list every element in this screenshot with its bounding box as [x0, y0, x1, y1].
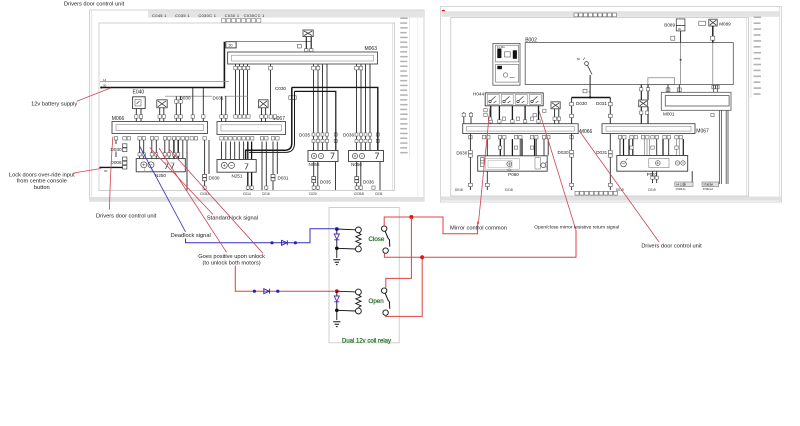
- lock motor assembly N251: [217, 160, 256, 173]
- svg-text:Dual 12v coil relay: Dual 12v coil relay: [342, 339, 391, 345]
- fuse box B001: [493, 43, 520, 85]
- svg-text:P060: P060: [508, 172, 519, 177]
- mid pin boxes: [498, 146, 533, 149]
- wire: [647, 107, 649, 124]
- wire: [337, 228, 356, 231]
- motor symbol above M067 right: [639, 100, 648, 107]
- svg-text:from centre console: from centre console: [17, 179, 67, 185]
- connector bar M066: [112, 122, 208, 134]
- svg-text:M089: M089: [719, 22, 731, 27]
- pin boxes below M067: [220, 137, 279, 140]
- node mirror common: [409, 215, 413, 219]
- callout line deadlock (blue): [140, 146, 186, 232]
- wire pair N056 down: [356, 162, 358, 191]
- inline diode red wire: [264, 289, 270, 294]
- fuse element: [497, 49, 501, 59]
- svg-text:C031B: C031B: [354, 192, 364, 196]
- thin top wire: [100, 81, 229, 83]
- pin boxes on bus drops: [570, 102, 613, 117]
- pin boxes above M066: [135, 100, 195, 118]
- pin box: [305, 49, 308, 52]
- long wire D031 mid: [609, 134, 611, 191]
- callout line goes positive: [159, 148, 227, 252]
- svg-text:D031: D031: [596, 150, 607, 155]
- svg-text:37089 A2: 37089 A2: [703, 188, 714, 191]
- left panel inner frame: [99, 23, 395, 191]
- ground close: [333, 260, 340, 265]
- callout line ddcu right: [579, 131, 659, 243]
- svg-text:D018: D018: [455, 188, 463, 192]
- motor symbol M089: [709, 19, 717, 26]
- coil close: [356, 227, 362, 233]
- wire: [713, 85, 715, 93]
- wire pair beyond N250: [182, 140, 184, 159]
- right panel legend rows: [754, 17, 762, 95]
- wire: [265, 108, 267, 122]
- body control module B002: [525, 43, 733, 85]
- wire: [305, 37, 307, 52]
- wire common to open switch: [386, 217, 412, 288]
- svg-text:Goes positive upon unlock: Goes positive upon unlock: [198, 254, 265, 260]
- wire: [140, 109, 142, 122]
- svg-text:D031: D031: [213, 95, 224, 100]
- svg-text:30: 30: [229, 44, 233, 48]
- svg-text:A4 123B: A4 123B: [676, 183, 686, 187]
- svg-text:F1 30A: F1 30A: [497, 46, 505, 49]
- node battery feed: [100, 86, 102, 88]
- heavy bus to D030 D031: [572, 97, 611, 99]
- pin boxes below M067 right: [618, 136, 682, 139]
- lock override input wire: [100, 166, 123, 168]
- wire bundle M067 to N251: [222, 142, 244, 160]
- callout line ddcu bottom-left: [110, 137, 113, 210]
- wire: [680, 31, 682, 43]
- wire N055 right down: [335, 162, 337, 191]
- svg-text:Lock doors over-ride input: Lock doors over-ride input: [9, 172, 75, 178]
- wire pair to D030 line: [175, 96, 177, 121]
- wire: [589, 75, 591, 98]
- lock motor assembly N250: [136, 159, 185, 172]
- svg-text:D030: D030: [558, 150, 569, 155]
- switch open lever: [385, 293, 390, 308]
- node open coil + (red): [335, 289, 339, 293]
- svg-text:D006: D006: [111, 160, 122, 165]
- svg-text:D030: D030: [209, 176, 220, 181]
- svg-text:370B 9A: 370B 9A: [703, 183, 713, 187]
- connector bar M067 right: [602, 124, 695, 134]
- door module P060: [478, 156, 548, 171]
- wire B002 to motor: [640, 85, 642, 101]
- pin letter boxes beside H044 wires: [484, 109, 546, 117]
- wire: [678, 85, 680, 93]
- red page marker dot: [442, 10, 445, 13]
- top band connector boxes: [574, 13, 616, 17]
- pin box: [711, 113, 714, 116]
- long wire D030 mid: [571, 134, 573, 191]
- connector D031: [271, 174, 275, 180]
- svg-text:C045 1 C035 1 C030C: C045 1 C035 1 C030C 1 C030 1 C030CC 1: [152, 13, 265, 18]
- pin boxes below M066 right: [469, 136, 574, 139]
- pin boxes below M066: [114, 137, 206, 140]
- pin boxes under M063: [234, 66, 363, 70]
- wire: [310, 37, 312, 52]
- right panel top gray band: [442, 11, 781, 17]
- heavy bus horizontal upper: [292, 87, 378, 150]
- 12v battery supply thick bus wire: [101, 42, 224, 88]
- code table 1: [675, 182, 693, 187]
- stub wire P061 right: [691, 171, 693, 182]
- wire: [115, 152, 117, 158]
- wire: [261, 108, 263, 122]
- wire N056 right down: [379, 162, 381, 191]
- left scan page border: [90, 10, 425, 201]
- connector D035 lower: [312, 177, 316, 183]
- switch close contact bottom: [383, 248, 388, 253]
- fuse B089: [676, 19, 685, 26]
- motor symbol above M067: [259, 100, 269, 108]
- wire: [337, 309, 356, 312]
- connector D036 lower: [355, 177, 359, 183]
- svg-text:M063: M063: [364, 46, 377, 52]
- ECU M001 inner: [665, 96, 729, 106]
- relay box small: [699, 21, 706, 25]
- sub box inside B002: [648, 78, 675, 85]
- svg-text:C030: C030: [275, 86, 286, 91]
- wire D030 drop: [192, 88, 194, 122]
- wire inside B002 right: [712, 43, 714, 85]
- deadlock blue wire: [186, 229, 335, 243]
- short verticals left edge: [463, 112, 465, 124]
- wire feed to M063: [236, 41, 311, 43]
- wire bundle M066 to N250: [140, 140, 170, 159]
- pin box: [711, 36, 715, 40]
- heavy bus elbow from M067: [246, 87, 292, 159]
- svg-text:Deadlock signal: Deadlock signal: [171, 233, 211, 239]
- svg-text:14: 14: [103, 78, 107, 82]
- svg-text:(to unlock both motors): (to unlock both motors): [203, 260, 261, 266]
- pin boxes on M001 top: [666, 85, 719, 91]
- switch open contact bottom: [383, 310, 388, 315]
- node close coil -: [335, 247, 339, 251]
- svg-text:D030: D030: [576, 101, 587, 106]
- svg-text:Drivers door control unit: Drivers door control unit: [641, 244, 702, 250]
- connector bar M067: [217, 122, 286, 135]
- callout line standard lock: [150, 148, 213, 215]
- callout line mirror common: [478, 108, 490, 225]
- node red 2: [276, 290, 279, 293]
- svg-text:E040: E040: [133, 90, 145, 96]
- svg-text:Drivers door control unit: Drivers door control unit: [96, 213, 157, 219]
- svg-text:Drivers door control unit: Drivers door control unit: [64, 1, 125, 7]
- wire: [667, 85, 669, 93]
- pin boxes at bar top: [489, 120, 540, 123]
- wire bundle M066 to P060: [504, 139, 548, 156]
- motor symbol mid: [551, 102, 560, 109]
- node close coil + (blue): [335, 227, 339, 231]
- svg-text:C020: C020: [309, 192, 317, 196]
- svg-text:D031: D031: [278, 176, 289, 181]
- wire inside B002 left: [680, 43, 682, 85]
- fuse element: [513, 50, 517, 59]
- heavy wire pair into N250: [173, 140, 175, 159]
- mirror common red wire from close switch: [384, 217, 477, 234]
- wire D031 bus drop: [609, 98, 611, 124]
- left panel bottom gray band: [90, 197, 425, 201]
- connector C030 on heavy bus: [289, 96, 296, 100]
- wire bundle M063 to N056: [357, 64, 371, 151]
- lock actuator E040: [133, 97, 146, 109]
- wire pair to D030 mid: [204, 140, 206, 190]
- wire bundle M063 to N055: [314, 64, 328, 151]
- gray wire pair below M001: [718, 110, 720, 184]
- bottom pin boxes: [203, 186, 375, 189]
- node blue 1: [270, 241, 273, 244]
- wire: [336, 229, 338, 234]
- return wire to panel: [422, 230, 576, 257]
- diode D-close: [334, 234, 339, 240]
- svg-text:H044: H044: [473, 91, 484, 96]
- svg-text:Mirror control common: Mirror control common: [450, 225, 507, 231]
- pin box B: [298, 44, 302, 48]
- svg-text:C016: C016: [262, 192, 270, 196]
- left panel top gray band: [148, 10, 424, 17]
- svg-text:D036: D036: [363, 180, 374, 185]
- left panel legend column rows: [400, 18, 408, 154]
- mid pin boxes P061: [630, 146, 678, 149]
- right panel bottom gray band: [441, 197, 782, 201]
- callout line goes positive second: [169, 149, 264, 254]
- wire open NO to return: [386, 257, 423, 316]
- svg-text:D036: D036: [343, 133, 354, 138]
- wire: [554, 109, 556, 124]
- ECU M001 outer: [661, 92, 731, 110]
- wire close NO to return: [384, 253, 422, 257]
- motor symbol above M063: [303, 30, 313, 37]
- wire: [337, 290, 356, 293]
- svg-text:Standard lock signal: Standard lock signal: [207, 215, 258, 221]
- wire: [716, 85, 718, 93]
- wire pair to D031: [272, 142, 274, 191]
- long wire D030 left: [469, 134, 471, 191]
- callout line lock doors: [74, 169, 102, 174]
- svg-text:M001: M001: [663, 111, 675, 116]
- right panel inner frame: [451, 18, 749, 197]
- wire: [336, 302, 338, 320]
- pin box: [671, 36, 675, 40]
- svg-text:B089: B089: [664, 22, 675, 27]
- wire M063 pin A drop: [270, 64, 272, 115]
- long wire P060 left: [486, 139, 488, 156]
- fuse box 30: [226, 42, 236, 48]
- fuse element: [497, 66, 502, 69]
- pin box: [310, 49, 313, 52]
- svg-text:Open: Open: [369, 298, 385, 305]
- wire: [337, 247, 356, 250]
- pin box: [583, 89, 587, 92]
- wire bundle M067 to P061: [624, 139, 684, 156]
- stub wires below P061: [652, 171, 654, 183]
- wire pair N055 down: [313, 162, 315, 191]
- unlock red wire: [235, 266, 335, 292]
- wire B002 to motor: [647, 85, 649, 101]
- wire: [163, 108, 165, 122]
- diode D-open: [334, 296, 339, 302]
- mirror switch pack H044: [485, 93, 543, 106]
- switch close contact top: [382, 226, 387, 231]
- pin box: [202, 115, 205, 118]
- svg-text:12v battery supply: 12v battery supply: [31, 101, 77, 107]
- callout line 12v battery supply: [77, 88, 111, 101]
- svg-text:C014: C014: [243, 192, 251, 196]
- svg-text:N251: N251: [232, 173, 243, 178]
- heavy wire pair N251: [247, 142, 249, 191]
- pin boxes above N250: [138, 153, 180, 156]
- node return: [420, 255, 424, 259]
- right scan page border: [441, 7, 782, 203]
- ignition switch inside B002: [585, 62, 589, 66]
- wire: [640, 107, 642, 124]
- wire: [135, 109, 137, 122]
- node red 1: [253, 290, 256, 293]
- svg-text:D030: D030: [456, 151, 467, 156]
- wire pair M067 to D031 line: [221, 96, 223, 121]
- bottom connector labels row: [200, 192, 383, 196]
- wire: [336, 291, 338, 295]
- gray wire pair 2 below M001: [725, 110, 727, 184]
- svg-text:C019: C019: [648, 188, 656, 192]
- ground open: [333, 322, 340, 327]
- connector D030 mid: [203, 174, 207, 180]
- bottom partial labels right panel: [455, 188, 656, 192]
- svg-text:D035: D035: [320, 180, 331, 185]
- pin box: [640, 88, 643, 91]
- inline diode blue wire: [282, 240, 288, 245]
- connector bar M063: [228, 52, 378, 64]
- top connector box row: [222, 19, 261, 23]
- callout line mirror return: [539, 111, 576, 230]
- node: [589, 96, 591, 98]
- svg-text:D031: D031: [596, 101, 607, 106]
- wire bundle H044 to M066 (bold singles): [491, 106, 539, 124]
- switch unit N055: [308, 151, 338, 162]
- svg-text:C018: C018: [505, 188, 513, 192]
- bottom connector box row right: [575, 191, 617, 195]
- svg-text:M067: M067: [696, 128, 709, 134]
- wire: [558, 109, 560, 124]
- code table 2: [702, 182, 719, 187]
- wire D030 bus drop: [571, 98, 573, 124]
- motor symbol left: [157, 100, 167, 108]
- relay enclosure box: [329, 208, 399, 343]
- svg-text:Open/close mirror resistive re: Open/close mirror resistive return signa…: [534, 225, 619, 231]
- node blue 2: [294, 241, 297, 244]
- svg-text:button: button: [34, 185, 50, 191]
- wire M089 drop: [712, 26, 714, 43]
- svg-text:C031: C031: [375, 192, 383, 196]
- coil open: [356, 289, 362, 295]
- wire: [159, 108, 161, 122]
- svg-text:D035: D035: [299, 133, 310, 138]
- pin boxes above M067: [220, 115, 277, 118]
- wire bundle M063 to M067 pins: [236, 64, 248, 115]
- wire bus drop 2: [202, 88, 204, 122]
- pin box: [646, 88, 649, 91]
- switch open contact top: [382, 288, 387, 293]
- svg-text:37089 A1: 37089 A1: [676, 188, 687, 191]
- svg-text:30: 30: [104, 169, 108, 173]
- svg-text:Close: Close: [369, 236, 385, 243]
- wire: [336, 240, 338, 258]
- switch unit N056: [349, 151, 384, 162]
- node open coil -: [335, 309, 339, 313]
- heavy bus horizontal lower: [295, 91, 336, 150]
- wire D030 left drop: [115, 140, 117, 144]
- svg-text:30: 30: [103, 84, 107, 88]
- switch close lever: [385, 231, 390, 246]
- wire pair C014: [261, 142, 263, 191]
- connector bar M066 right: [463, 124, 579, 134]
- door module P061: [617, 156, 688, 172]
